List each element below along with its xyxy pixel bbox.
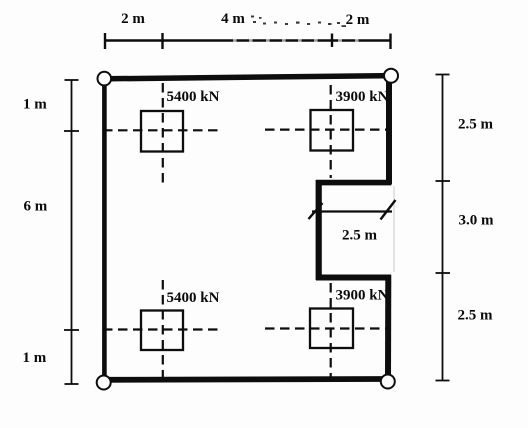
mat outline: bottom edge bbox=[104, 376, 388, 383]
mat outline: right edge lower bbox=[385, 275, 391, 381]
corner circle top-left bbox=[98, 72, 112, 86]
svg-text:5400 kN: 5400 kN bbox=[167, 89, 220, 105]
column TL centerline vertical bbox=[162, 83, 164, 186]
column TR square bbox=[311, 110, 354, 151]
column BR square bbox=[310, 309, 353, 349]
column BR centerline horizontal bbox=[265, 327, 389, 329]
corner circle top-right bbox=[384, 69, 398, 83]
svg-text:2 m: 2 m bbox=[346, 12, 370, 28]
scan artifact dots bbox=[251, 16, 346, 28]
notch dimension right slash bbox=[381, 200, 396, 220]
column TR centerline vertical bbox=[330, 85, 332, 178]
column TL square bbox=[141, 111, 183, 152]
column TR centerline horizontal bbox=[265, 129, 391, 131]
svg-text:2.5 m: 2.5 m bbox=[458, 308, 494, 324]
svg-text:2.5 m: 2.5 m bbox=[458, 117, 494, 133]
corner circle bottom-right bbox=[381, 375, 395, 389]
svg-text:3.0 m: 3.0 m bbox=[459, 213, 495, 229]
mat outline: notch top bbox=[316, 180, 392, 186]
ghost scan line right of notch bbox=[393, 186, 395, 272]
left dimension line bbox=[64, 80, 79, 384]
svg-text:4 m: 4 m bbox=[221, 11, 245, 27]
column BR centerline vertical bbox=[330, 283, 332, 377]
right dimension line bbox=[436, 75, 451, 381]
svg-text:5400 kN: 5400 kN bbox=[167, 290, 220, 306]
top dimension line wear gaps bbox=[233, 39, 359, 43]
corner circle bottom-left bbox=[97, 376, 111, 390]
column BL square bbox=[141, 311, 183, 351]
svg-text:3900 kN: 3900 kN bbox=[336, 89, 389, 105]
mat outline: notch bottom bbox=[316, 275, 391, 281]
mat outline: notch left bbox=[316, 180, 322, 280]
svg-text:2.5 m: 2.5 m bbox=[342, 228, 378, 244]
svg-text:1 m: 1 m bbox=[23, 97, 47, 113]
notch dimension line bbox=[312, 210, 392, 212]
mat outline: top edge bbox=[106, 76, 390, 79]
notch dimension left slash bbox=[309, 203, 323, 219]
top dimension line bbox=[105, 33, 392, 49]
mat outline: right edge upper bbox=[386, 76, 392, 184]
column TL centerline horizontal bbox=[103, 129, 219, 131]
mat outline: left edge bbox=[102, 78, 107, 382]
svg-text:1 m: 1 m bbox=[23, 350, 47, 366]
svg-text:6 m: 6 m bbox=[24, 199, 48, 215]
column BL centerline horizontal bbox=[103, 328, 220, 330]
svg-text:2 m: 2 m bbox=[121, 11, 145, 27]
column BL centerline vertical bbox=[162, 280, 164, 377]
svg-text:3900 kN: 3900 kN bbox=[336, 288, 389, 304]
